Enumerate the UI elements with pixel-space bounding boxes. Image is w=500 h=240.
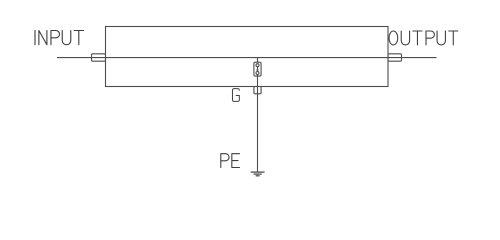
label OUTPUT <box>389 31 458 45</box>
device box U1 <box>106 27 389 87</box>
wire: input lead <box>57 57 106 59</box>
terminal: input terminal <box>92 54 106 61</box>
label G <box>232 89 239 102</box>
label INPUT <box>35 31 83 45</box>
text labels drawn as CAD-style stroke glyphs <box>35 31 458 168</box>
terminal: ground terminal G <box>254 87 261 94</box>
gas discharge tube G body <box>254 62 261 76</box>
label PE <box>221 154 240 168</box>
gas discharge tube G electrodes <box>256 64 259 76</box>
ground: earth symbol PE <box>251 172 265 176</box>
terminal: output terminal <box>388 54 402 61</box>
wire: arrester to box bottom <box>257 76 259 94</box>
wire: stub from line to arrester <box>257 58 259 63</box>
wire: earth wire down to PE <box>257 94 259 172</box>
wire: through line inside box <box>106 57 389 59</box>
wire: output lead <box>388 57 437 59</box>
